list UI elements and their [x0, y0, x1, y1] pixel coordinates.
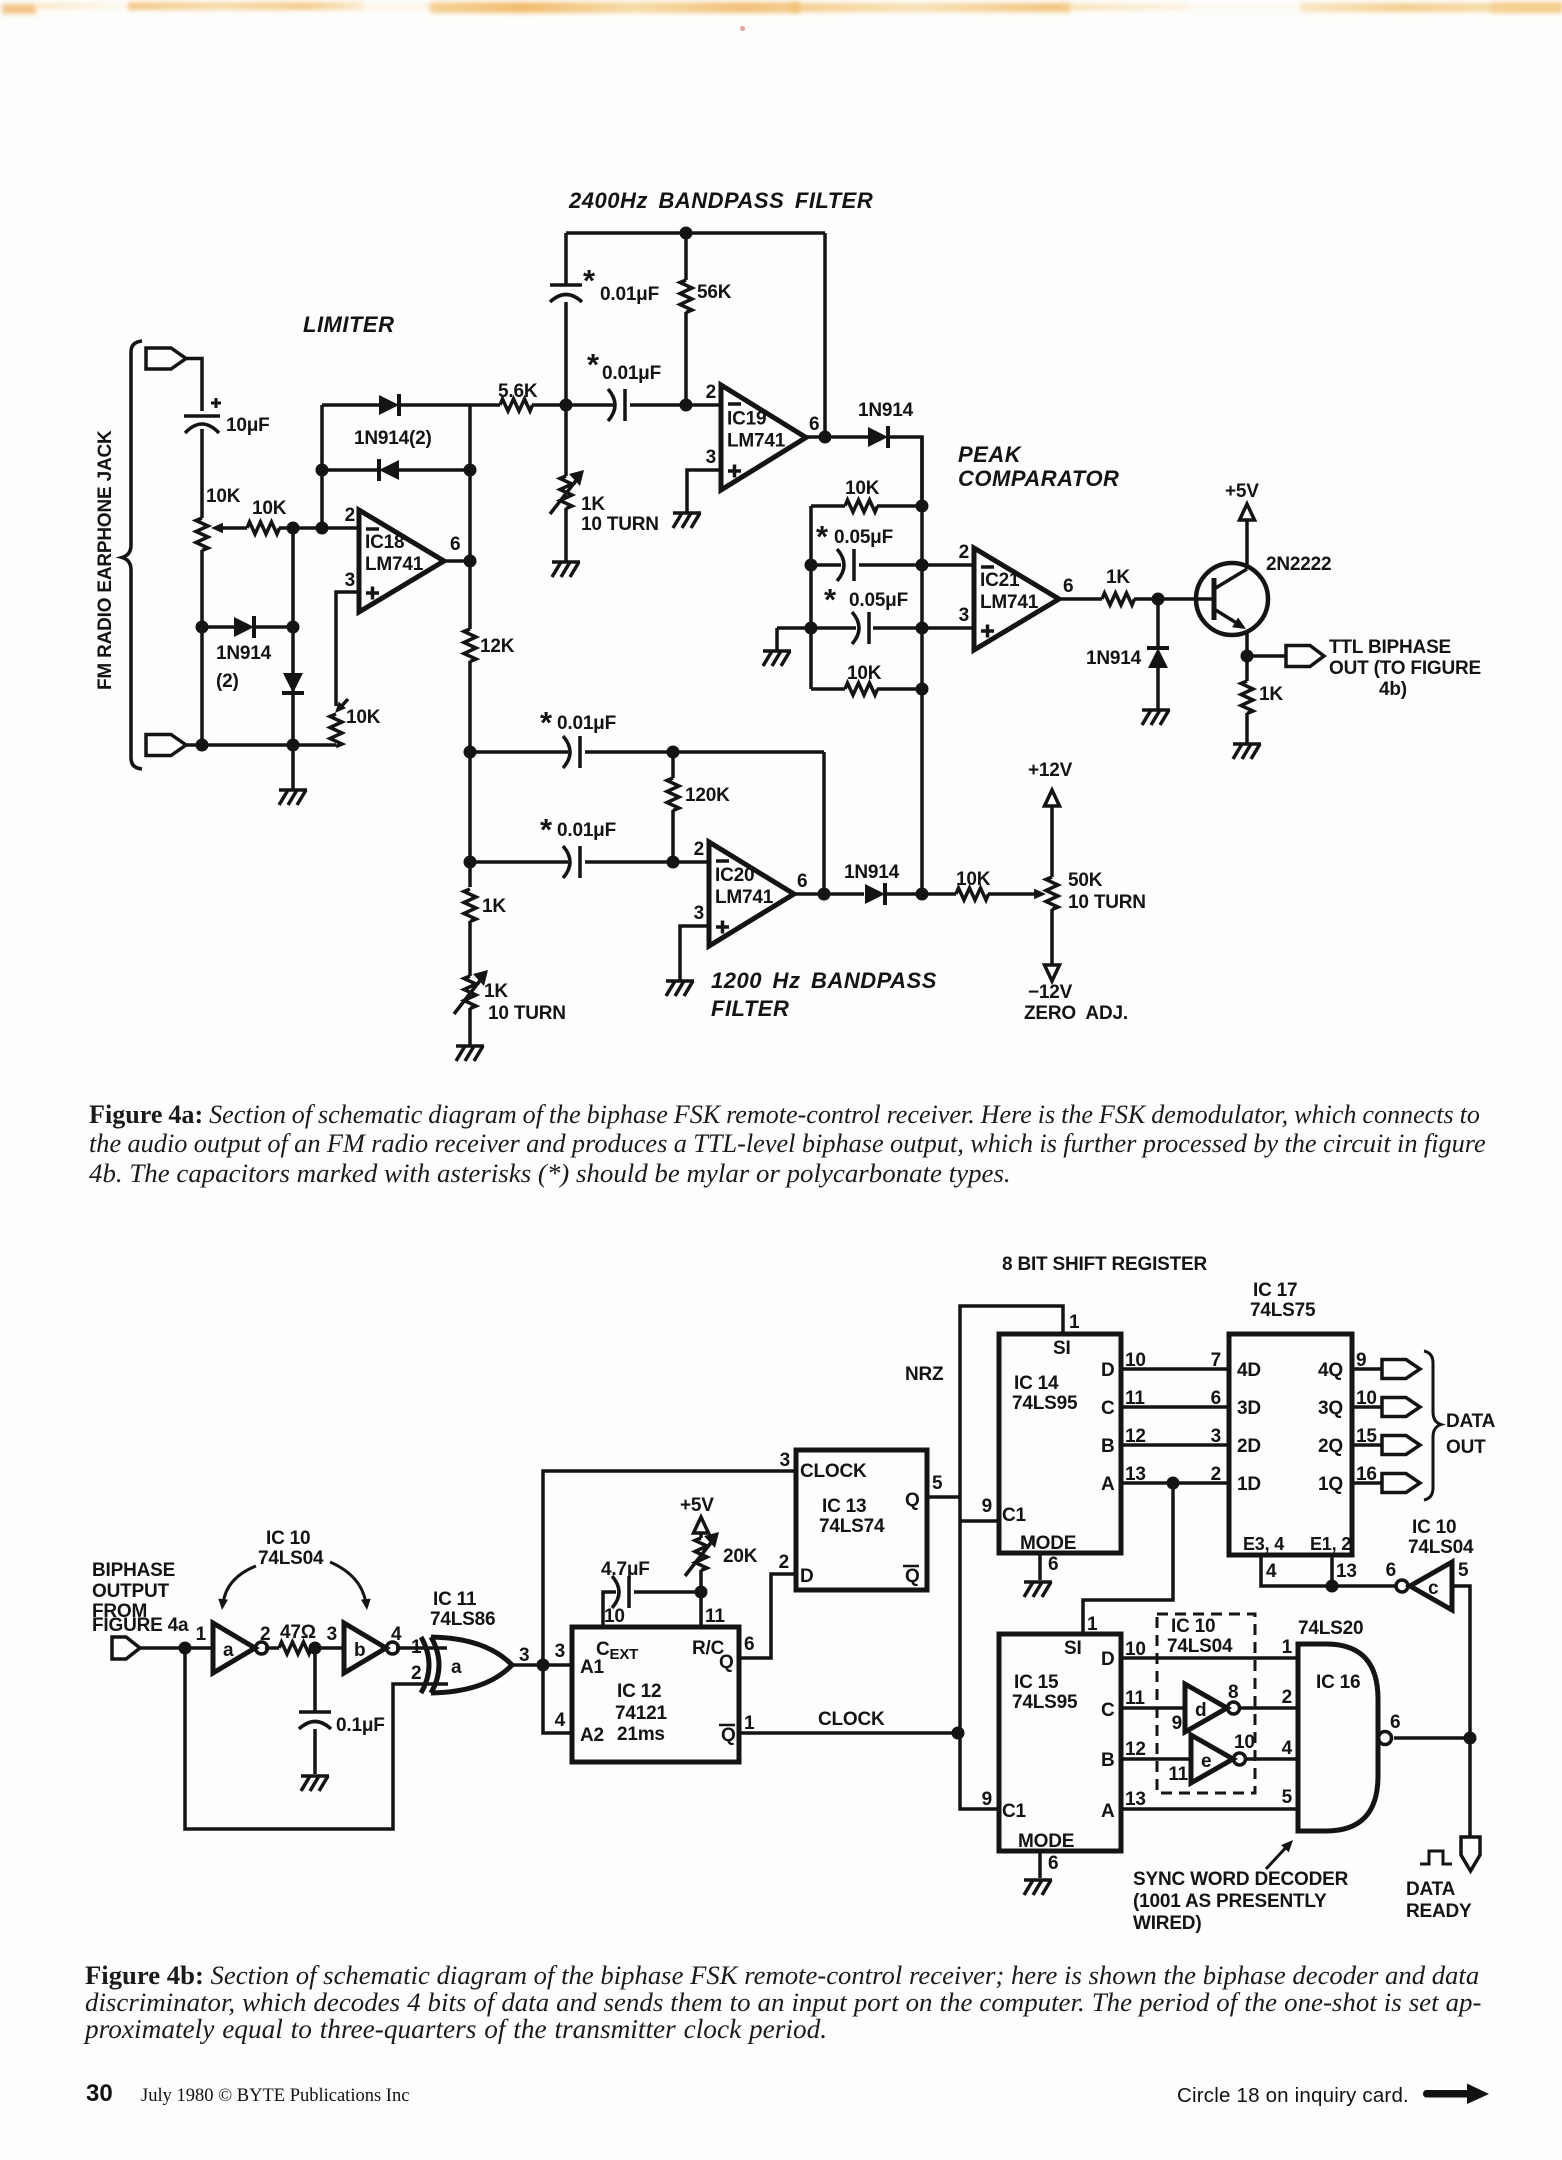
- svg-text:3: 3: [694, 903, 704, 924]
- node IC20 feedback: [818, 888, 831, 901]
- footer: [86, 2080, 113, 2108]
- svg-text:E1, 2: E1, 2: [1310, 1534, 1351, 1554]
- svg-text:2400Hz BANDPASS FILTER: 2400Hz BANDPASS FILTER: [568, 188, 873, 213]
- wire inv b to XOR pin1: [396, 1646, 447, 1650]
- ground emitter 1K: [1233, 742, 1261, 746]
- resistor R 5.6K: [500, 399, 533, 411]
- svg-text:COMPARATOR: COMPARATOR: [958, 466, 1119, 491]
- wire B to inv e: [1121, 1757, 1191, 1761]
- power -12V arrow: [1045, 965, 1060, 981]
- op-amp IC19 LM741: [721, 385, 806, 490]
- wire left column peak: [809, 506, 813, 689]
- svg-text:IC 14: IC 14: [1014, 1373, 1059, 1394]
- svg-text:C1: C1: [1002, 1505, 1027, 1526]
- wire gnd branch to cap 0.05 bottom: [777, 626, 856, 630]
- svg-text:*: *: [824, 582, 837, 617]
- resistor R 1K base: [1102, 593, 1135, 605]
- svg-text:5: 5: [1458, 1560, 1469, 1581]
- svg-text:IC 16: IC 16: [1316, 1672, 1360, 1693]
- wire to cap 0.05 top: [811, 563, 841, 567]
- wire 10K bias to rail: [334, 745, 338, 746]
- xor-gate IC11a 74LS86: [421, 1637, 429, 1693]
- svg-text:SI: SI: [1053, 1338, 1071, 1359]
- wire detector to peak network: [888, 437, 922, 500]
- wire node B up to limiter diodes: [320, 405, 324, 528]
- wire 47ohm to inverter b: [311, 1646, 344, 1650]
- node enable: [1326, 1580, 1339, 1593]
- wire IC19 pin3 to ground: [687, 470, 721, 513]
- node input: [179, 1642, 192, 1655]
- resistor R 10K zero adj: [956, 888, 989, 900]
- wire to clamp diode: [1156, 599, 1160, 646]
- connector top earphone terminal: [146, 348, 186, 369]
- svg-text:74LS95: 74LS95: [1012, 1393, 1078, 1414]
- wire cap to IC21 pin2: [859, 563, 974, 567]
- wire feedback right leg: [823, 233, 827, 437]
- svg-text:+12V: +12V: [1028, 760, 1073, 781]
- svg-text:CLOCK: CLOCK: [818, 1709, 885, 1730]
- svg-text:74121: 74121: [615, 1703, 667, 1724]
- svg-text:(1001 AS PRESENTLY: (1001 AS PRESENTLY: [1133, 1891, 1327, 1912]
- svg-text:1: 1: [196, 1624, 207, 1645]
- svg-text:21ms: 21ms: [617, 1724, 665, 1745]
- diode D 1N914 lower horizontal: [234, 617, 254, 637]
- wire 5.6K to cap: [532, 403, 613, 407]
- svg-text:10: 10: [604, 1606, 625, 1627]
- svg-text:2N2222: 2N2222: [1266, 554, 1331, 575]
- wire clamp diode to ground: [1156, 668, 1160, 710]
- resistor R 1K 10-turn 1200: [464, 976, 476, 1009]
- resistor R 1K pulldown: [1241, 681, 1253, 714]
- svg-text:LM741: LM741: [980, 592, 1039, 613]
- op-amp IC18 LM741: [359, 510, 444, 612]
- svg-text:4D: 4D: [1237, 1360, 1261, 1381]
- ground 1K pot 1200: [456, 1044, 484, 1048]
- svg-text:b: b: [354, 1640, 365, 1661]
- svg-text:e: e: [1201, 1751, 1211, 1772]
- wire C to inv d: [1121, 1706, 1185, 1710]
- svg-text:3D: 3D: [1237, 1398, 1261, 1419]
- wire 1200 feedback leg: [822, 752, 826, 893]
- wire to upper feedback diode: [322, 403, 379, 407]
- svg-text:74LS95: 74LS95: [1012, 1692, 1078, 1713]
- svg-text:A1: A1: [580, 1657, 605, 1678]
- svg-text:2: 2: [694, 839, 704, 860]
- wire 20K to node: [699, 1570, 703, 1592]
- svg-text:*: *: [816, 519, 829, 554]
- node data ready: [1464, 1732, 1477, 1745]
- resistor R 12K: [464, 629, 476, 662]
- svg-text:2: 2: [345, 505, 355, 526]
- node pin3 left: [805, 622, 818, 635]
- svg-text:DATA: DATA: [1446, 1411, 1496, 1432]
- svg-text:0.1μF: 0.1μF: [336, 1715, 385, 1736]
- power +5V arrow: [1240, 504, 1255, 520]
- svg-text:11: 11: [1125, 1688, 1145, 1709]
- node 120K bottom: [667, 856, 680, 869]
- pot arrow 1K 1200: [454, 978, 482, 1014]
- svg-text:6: 6: [1386, 1560, 1396, 1581]
- wire D to IC16 pin1: [1121, 1656, 1298, 1660]
- wire 10K bottom left: [811, 687, 845, 691]
- wire cap to IC19 pin2: [630, 403, 721, 407]
- wire 120K top stub: [671, 752, 675, 778]
- svg-text:74LS04: 74LS04: [1408, 1537, 1474, 1558]
- label BIPHASE OUTPUT FROM FIGURE 4a: [92, 1560, 189, 1636]
- ground IC20 pin3: [666, 979, 694, 983]
- resistor R 20K pot: [695, 1538, 707, 1571]
- svg-text:6: 6: [797, 871, 807, 892]
- svg-text:1D: 1D: [1237, 1474, 1261, 1495]
- svg-text:74LS75: 74LS75: [1250, 1300, 1316, 1321]
- node rail mid: [287, 739, 300, 752]
- wire 10K bottom right: [877, 687, 922, 691]
- wire output column upper: [468, 405, 472, 629]
- svg-text:3Q: 3Q: [1318, 1398, 1343, 1419]
- svg-text:0.05μF: 0.05μF: [834, 527, 893, 548]
- svg-text:1N914: 1N914: [858, 400, 914, 421]
- wire cap to IC21 pin3: [873, 626, 974, 630]
- wire lower diode to node: [254, 625, 293, 629]
- wire rail to cap1: [564, 233, 568, 284]
- svg-text:10 TURN: 10 TURN: [1068, 892, 1146, 913]
- svg-text:2: 2: [1282, 1687, 1292, 1708]
- diode D 1N914 feedback lower: [379, 460, 399, 480]
- connector TTL biphase out: [1286, 646, 1324, 667]
- svg-text:C: C: [1101, 1700, 1115, 1721]
- caption figure 4b: [85, 1960, 1479, 1991]
- node IC18 output: [464, 555, 477, 568]
- IC12 74121 one-shot box: [572, 1627, 739, 1762]
- node rail left: [196, 739, 209, 752]
- svg-text:7: 7: [1211, 1350, 1221, 1371]
- wire pot to ground: [468, 1008, 472, 1046]
- wire 2400 top rail: [566, 231, 825, 235]
- resistor R 47 ohm: [279, 1642, 312, 1654]
- wire node A down to rail: [291, 528, 295, 745]
- resistor R 120K: [667, 778, 679, 811]
- svg-text:A2: A2: [580, 1725, 604, 1746]
- svg-text:3: 3: [519, 1645, 529, 1666]
- wire row2 right: [585, 860, 709, 864]
- diode D 1N914 lower vertical: [283, 673, 303, 693]
- node pin2 left: [805, 559, 818, 572]
- wire pot to bottom rail: [200, 550, 204, 745]
- wire to lower feedback diode: [322, 468, 379, 472]
- wire 4Q out: [1352, 1367, 1382, 1371]
- wire node RC to 0.1uF: [313, 1648, 317, 1711]
- node feedback right: [464, 464, 477, 477]
- svg-text:B: B: [1101, 1436, 1115, 1457]
- node R/C: [695, 1586, 708, 1599]
- diode D 1N914 clamp: [1148, 648, 1168, 668]
- svg-text:LIMITER: LIMITER: [303, 312, 395, 337]
- svg-text:74LS04: 74LS04: [258, 1548, 324, 1569]
- node XOR out: [537, 1659, 550, 1672]
- svg-text:1K: 1K: [1259, 684, 1283, 705]
- svg-text:READY: READY: [1406, 1901, 1472, 1922]
- inverter IC10d 74LS04: [1185, 1684, 1227, 1732]
- inverter IC10c 74LS04 (pointing left): [1396, 1580, 1408, 1592]
- brace data out: [1424, 1351, 1441, 1500]
- wire 3Q out: [1352, 1405, 1382, 1409]
- wire to IC13 clock: [543, 1471, 796, 1665]
- connector 4Q data out: [1382, 1360, 1420, 1379]
- svg-text:12: 12: [1125, 1739, 1146, 1760]
- capacitor C 10uF polarized: [184, 414, 220, 418]
- svg-text:4: 4: [391, 1624, 402, 1645]
- svg-text:74LS04: 74LS04: [1167, 1636, 1233, 1657]
- svg-text:4.7μF: 4.7μF: [601, 1559, 650, 1580]
- svg-text:Q: Q: [719, 1652, 734, 1673]
- wire 10K to IC18 pin2: [279, 526, 359, 530]
- svg-text:4b): 4b): [1379, 679, 1407, 700]
- svg-text:FILTER: FILTER: [711, 996, 789, 1021]
- node RC: [309, 1642, 322, 1655]
- svg-text:10 TURN: 10 TURN: [581, 514, 659, 535]
- svg-text:12K: 12K: [480, 636, 515, 657]
- wire rail-col to lower diode: [202, 625, 234, 629]
- resistor R 10K series: [247, 522, 280, 534]
- svg-text:10K: 10K: [956, 869, 991, 890]
- wire IC14 mode to ground: [1038, 1553, 1042, 1580]
- svg-text:10K: 10K: [845, 478, 880, 499]
- ground IC19 pin3: [673, 511, 701, 515]
- svg-text:WIRED): WIRED): [1133, 1913, 1201, 1934]
- wire inv a to 47ohm: [265, 1646, 279, 1650]
- svg-text:(2): (2): [216, 671, 239, 692]
- IC13 74LS74 box: [796, 1450, 927, 1590]
- svg-text:2: 2: [411, 1663, 421, 1684]
- connector 2Q data out: [1382, 1436, 1420, 1455]
- scan artifact: orange band at top edge: [2, 4, 36, 14]
- svg-text:−12V: −12V: [1028, 982, 1073, 1003]
- wire A to 1D: [1121, 1481, 1229, 1485]
- wire E3,4 to node: [1261, 1555, 1396, 1586]
- svg-text:SI: SI: [1064, 1638, 1082, 1659]
- wire node to pin11: [699, 1592, 703, 1627]
- svg-text:0.05μF: 0.05μF: [849, 590, 908, 611]
- svg-text:74LS86: 74LS86: [430, 1609, 495, 1630]
- wire 1K to base: [1134, 597, 1214, 601]
- wire output column lower: [468, 661, 472, 887]
- svg-text:4: 4: [555, 1710, 566, 1731]
- connector 1Q data out: [1382, 1474, 1420, 1493]
- wire jack to 10uF cap: [186, 359, 202, 412]
- svg-text:6: 6: [1048, 1554, 1058, 1575]
- svg-text:CLOCK: CLOCK: [800, 1461, 867, 1482]
- wire NRZ vertical to SI: [960, 1306, 1063, 1733]
- wire wiper diag: [338, 699, 348, 710]
- node 1200 row2: [464, 856, 477, 869]
- resistor R 56K: [680, 280, 692, 313]
- node base clamp: [1152, 593, 1165, 606]
- node TTL out: [1241, 650, 1254, 663]
- svg-text:IC 10: IC 10: [1171, 1616, 1215, 1637]
- svg-text:IC 17: IC 17: [1253, 1280, 1297, 1301]
- svg-text:Q: Q: [721, 1725, 736, 1746]
- resistor R 1K 1200: [464, 889, 476, 922]
- wire 50K to -12V: [1050, 909, 1054, 965]
- svg-text:FM RADIO EARPHONE JACK: FM RADIO EARPHONE JACK: [95, 430, 116, 690]
- svg-text:c: c: [1428, 1578, 1439, 1599]
- svg-text:BIPHASE: BIPHASE: [92, 1560, 175, 1581]
- svg-text:1: 1: [1069, 1312, 1080, 1333]
- wire 0.1uF to ground: [313, 1729, 317, 1774]
- svg-text:LM741: LM741: [727, 431, 786, 452]
- node pin2 junction B: [316, 522, 329, 535]
- svg-text:10: 10: [1234, 1732, 1255, 1753]
- svg-text:3: 3: [345, 570, 355, 591]
- svg-text:LM741: LM741: [365, 554, 424, 575]
- svg-text:1K: 1K: [1106, 567, 1130, 588]
- svg-text:a: a: [223, 1640, 234, 1661]
- svg-text:2: 2: [779, 1552, 789, 1573]
- svg-text:3: 3: [959, 605, 969, 626]
- wire rail to 56K: [684, 233, 688, 280]
- svg-text:IC19: IC19: [727, 409, 766, 430]
- svg-text:D: D: [1101, 1649, 1115, 1670]
- resistor R 10K bias: [330, 714, 342, 747]
- svg-text:+5V: +5V: [1225, 481, 1259, 502]
- IC17 74LS75 box: [1229, 1334, 1352, 1555]
- node columns join: [916, 888, 929, 901]
- node CLOCK: [952, 1727, 965, 1740]
- pot arrow 1K 2400: [550, 478, 578, 514]
- wire feedback to XOR pin2: [185, 1648, 448, 1829]
- svg-text:IC 10: IC 10: [1412, 1517, 1456, 1538]
- svg-text:MODE: MODE: [1018, 1831, 1074, 1852]
- svg-text:+5V: +5V: [680, 1495, 714, 1516]
- svg-text:3: 3: [780, 1450, 790, 1471]
- svg-text:LM741: LM741: [715, 887, 774, 908]
- wire 10K to 50K wiper: [988, 892, 1042, 896]
- svg-text:1200 Hz BANDPASS: 1200 Hz BANDPASS: [711, 968, 937, 993]
- svg-text:10 TURN: 10 TURN: [488, 1003, 566, 1024]
- svg-text:TTL BIPHASE: TTL BIPHASE: [1329, 637, 1451, 658]
- inverter IC10b 74LS04: [344, 1623, 386, 1673]
- wire feedback lower to node C: [399, 468, 470, 472]
- connector 3Q data out: [1382, 1398, 1420, 1417]
- power +5V arrow oneshot: [694, 1517, 709, 1533]
- wire jack to rail: [186, 743, 202, 747]
- svg-text:IC20: IC20: [715, 865, 754, 886]
- svg-text:1: 1: [1282, 1637, 1293, 1658]
- svg-text:D: D: [800, 1566, 814, 1587]
- ground clamp diode: [1142, 708, 1170, 712]
- wire 120K bottom stub: [671, 810, 675, 862]
- diode D 1N914 2400 detector: [868, 427, 888, 447]
- wire IC18 output: [444, 559, 470, 563]
- wire pin10 to 4.7uF: [603, 1592, 616, 1627]
- wire right column: [920, 437, 924, 893]
- svg-text:4: 4: [1266, 1561, 1277, 1582]
- svg-text:3: 3: [1211, 1426, 1221, 1447]
- wire IC14 C1 stub: [960, 1519, 999, 1523]
- svg-text:50K: 50K: [1068, 870, 1103, 891]
- wire 50K to +12V: [1050, 806, 1054, 877]
- nand-gate IC16 74LS20: [1298, 1644, 1378, 1831]
- diode D 1N914 1200 detector: [865, 884, 885, 904]
- svg-text:C1: C1: [1002, 1801, 1027, 1822]
- svg-text:8: 8: [1228, 1682, 1238, 1703]
- wire diode node to 5.6K: [470, 403, 500, 407]
- ground limiter: [279, 788, 307, 792]
- IC14 74LS95 box: [999, 1334, 1121, 1553]
- svg-text:a: a: [451, 1657, 462, 1678]
- op-amp IC21 LM741: [974, 548, 1059, 650]
- svg-text:IC21: IC21: [980, 570, 1020, 591]
- svg-text:OUTPUT: OUTPUT: [92, 1581, 170, 1602]
- svg-text:11: 11: [1168, 1764, 1188, 1785]
- arrow to inverter a: [223, 1566, 256, 1604]
- svg-text:20K: 20K: [723, 1546, 758, 1567]
- svg-text:1Q: 1Q: [1318, 1474, 1343, 1495]
- svg-text:SYNC WORD DECODER: SYNC WORD DECODER: [1133, 1869, 1349, 1890]
- svg-text:6: 6: [1048, 1853, 1058, 1874]
- svg-text:0.01μF: 0.01μF: [557, 820, 616, 841]
- wire CLOCK: [739, 1731, 958, 1735]
- svg-text:5: 5: [1282, 1787, 1293, 1808]
- wire collector: [1245, 520, 1249, 569]
- svg-text:Q: Q: [905, 1566, 920, 1587]
- svg-text:OUT: OUT: [1446, 1437, 1486, 1458]
- svg-text:74LS74: 74LS74: [819, 1516, 885, 1537]
- wire 10K top left: [811, 504, 845, 508]
- op-amp IC20 LM741: [709, 842, 794, 946]
- node 10K top right: [916, 500, 929, 513]
- wire 2Q out: [1352, 1443, 1382, 1447]
- svg-text:10μF: 10μF: [226, 415, 270, 436]
- svg-text:*: *: [540, 705, 553, 740]
- node 1200 row1: [464, 746, 477, 759]
- wire to 1K pulldown: [1245, 656, 1249, 681]
- wire 1K to pot: [468, 921, 472, 976]
- capacitor C 0.05uF bottom: [852, 612, 859, 644]
- svg-text:9: 9: [1172, 1713, 1182, 1734]
- resistor body 10K pot: [196, 518, 208, 551]
- svg-text:6: 6: [744, 1634, 754, 1655]
- svg-text:*: *: [583, 263, 596, 298]
- ground IC14 mode: [1024, 1580, 1052, 1584]
- connector DATA READY flag: [1461, 1837, 1480, 1871]
- wire down to ground pin3: [775, 628, 779, 651]
- wire XOR out to A1: [512, 1663, 572, 1667]
- pot arrow 20K: [685, 1540, 713, 1576]
- arrow to inverter b: [330, 1562, 366, 1604]
- wire detector to 10K: [885, 892, 956, 896]
- transistor Q 2N2222: [1196, 563, 1268, 635]
- svg-text:1K: 1K: [482, 896, 506, 917]
- ground 0.1uF: [301, 1774, 329, 1778]
- wire 56K to node: [684, 312, 688, 405]
- wire inv c to data ready node: [1452, 1586, 1470, 1739]
- svg-text:*: *: [587, 347, 600, 382]
- svg-text:1: 1: [744, 1713, 755, 1734]
- svg-text:4Q: 4Q: [1318, 1360, 1343, 1381]
- ground IC21 pin3 branch: [763, 649, 791, 653]
- svg-text:9: 9: [982, 1496, 992, 1517]
- capacitor C 0.05uF top: [837, 549, 844, 581]
- svg-text:1K: 1K: [484, 981, 508, 1002]
- capacitor C 0.01uF series 1200: [563, 846, 570, 878]
- svg-text:13: 13: [1125, 1789, 1146, 1810]
- svg-text:10K: 10K: [346, 707, 381, 728]
- svg-text:D: D: [1101, 1360, 1115, 1381]
- svg-text:OUT (TO FIGURE: OUT (TO FIGURE: [1329, 658, 1481, 679]
- IC15 74LS95 box: [999, 1634, 1121, 1851]
- resistor R 1K 10-turn 2400: [560, 476, 572, 509]
